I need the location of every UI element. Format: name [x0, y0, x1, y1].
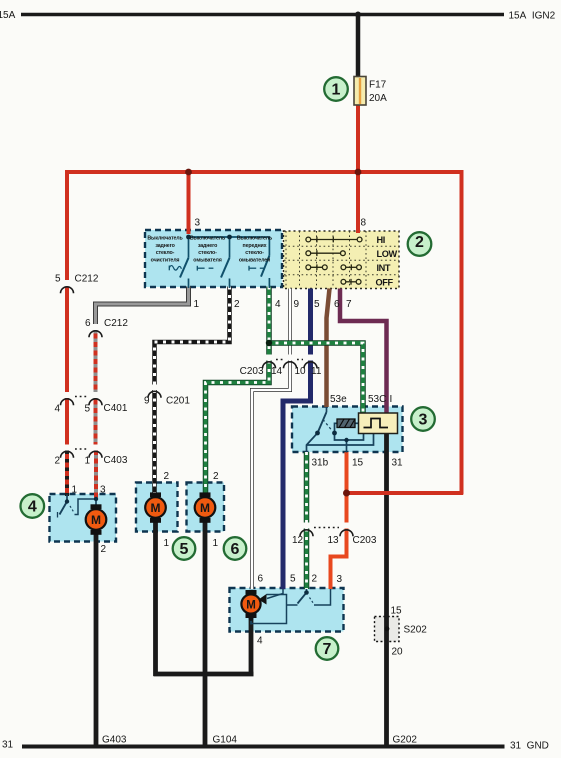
svg-text:3: 3 — [100, 485, 106, 496]
svg-text:1: 1 — [72, 485, 78, 496]
svg-text:омывателя: омывателя — [193, 257, 221, 263]
svg-text:12: 12 — [292, 535, 304, 546]
svg-text:6: 6 — [258, 574, 264, 585]
svg-text:6: 6 — [85, 318, 91, 329]
svg-text:G202: G202 — [393, 735, 418, 746]
svg-text:C212: C212 — [75, 274, 99, 285]
svg-text:1: 1 — [194, 299, 200, 310]
svg-text:C401: C401 — [104, 403, 128, 414]
svg-text:31: 31 — [2, 740, 14, 751]
svg-text:F17: F17 — [369, 80, 387, 91]
svg-text:31: 31 — [392, 458, 404, 469]
svg-text:15A IGN2: 15A IGN2 — [509, 11, 556, 22]
svg-text:INT: INT — [377, 263, 391, 273]
svg-text:1: 1 — [213, 538, 219, 549]
svg-text:заднего: заднего — [155, 243, 175, 249]
svg-text:5: 5 — [55, 274, 61, 285]
svg-text:очистителя: очистителя — [151, 257, 180, 263]
svg-text:3: 3 — [337, 574, 343, 585]
svg-text:11: 11 — [311, 366, 322, 377]
svg-text:C203: C203 — [240, 366, 264, 377]
svg-text:14: 14 — [271, 366, 283, 377]
svg-text:5: 5 — [314, 299, 320, 310]
svg-text:G403: G403 — [102, 735, 127, 746]
svg-text:53e: 53e — [330, 394, 347, 405]
svg-text:Выключатель: Выключатель — [237, 236, 273, 242]
svg-text:LOW: LOW — [377, 249, 398, 259]
svg-text:стекло-: стекло- — [156, 250, 175, 256]
svg-text:13: 13 — [328, 535, 340, 546]
svg-text:2: 2 — [101, 544, 107, 555]
svg-text:2: 2 — [213, 471, 219, 482]
svg-text:2: 2 — [415, 234, 424, 251]
svg-text:омывателей: омывателей — [239, 256, 270, 263]
svg-text:заднего: заднего — [198, 243, 218, 249]
svg-text:7: 7 — [346, 299, 352, 310]
svg-text:C403: C403 — [104, 455, 128, 466]
svg-text:передних: передних — [243, 243, 267, 249]
svg-text:C201: C201 — [166, 396, 190, 407]
svg-text:10: 10 — [295, 366, 307, 377]
svg-text:M: M — [151, 501, 161, 515]
svg-text:стекло-: стекло- — [198, 250, 217, 256]
svg-text:1: 1 — [332, 82, 341, 99]
svg-text:Выключатель: Выключатель — [190, 236, 226, 242]
svg-text:7: 7 — [323, 641, 332, 658]
svg-text:G104: G104 — [213, 735, 238, 746]
svg-text:M: M — [91, 513, 101, 527]
svg-text:2: 2 — [164, 471, 170, 482]
svg-text:OFF: OFF — [376, 278, 394, 288]
svg-text:1: 1 — [164, 538, 170, 549]
svg-text:C203: C203 — [353, 535, 377, 546]
svg-text:2: 2 — [234, 299, 240, 310]
svg-text:4: 4 — [257, 636, 263, 647]
svg-text:6: 6 — [334, 299, 340, 310]
svg-text:15: 15 — [352, 458, 364, 469]
svg-text:53C: 53C — [368, 394, 386, 405]
svg-text:5: 5 — [290, 574, 296, 585]
svg-text:Выключатель: Выключатель — [147, 236, 183, 242]
svg-text:3: 3 — [419, 412, 428, 429]
svg-text:4: 4 — [28, 499, 37, 516]
svg-text:S202: S202 — [404, 625, 428, 636]
svg-text:6: 6 — [231, 541, 240, 558]
svg-text:15: 15 — [391, 606, 403, 617]
svg-text:стекло-: стекло- — [245, 250, 264, 256]
svg-text:9: 9 — [144, 396, 150, 407]
svg-text:4: 4 — [275, 299, 281, 310]
svg-text:3: 3 — [195, 218, 201, 229]
svg-text:31 GND: 31 GND — [510, 741, 549, 752]
svg-text:9: 9 — [294, 299, 300, 310]
svg-text:20: 20 — [392, 647, 404, 658]
svg-text:M: M — [200, 501, 210, 515]
svg-text:5: 5 — [84, 404, 90, 415]
svg-text:5: 5 — [180, 541, 189, 558]
svg-text:2: 2 — [54, 456, 60, 467]
svg-text:8: 8 — [361, 218, 367, 229]
svg-text:C212: C212 — [104, 318, 128, 329]
svg-text:1: 1 — [84, 456, 90, 467]
svg-text:HI: HI — [377, 235, 385, 245]
svg-text:31b: 31b — [312, 458, 329, 469]
svg-text:15A: 15A — [0, 10, 16, 21]
svg-text:I: I — [390, 394, 393, 405]
svg-text:2: 2 — [312, 574, 318, 585]
svg-text:4: 4 — [54, 404, 60, 415]
svg-text:20A: 20A — [369, 93, 387, 104]
svg-text:M: M — [246, 599, 256, 611]
